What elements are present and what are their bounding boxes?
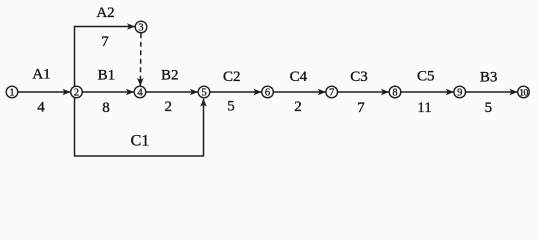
svg-text:C4: C4: [290, 69, 308, 85]
arrow C1 (2 down, across, up to 5): [75, 98, 204, 156]
arrow C4 (6 to 7): [274, 91, 326, 93]
arrow C5 (8 to 9): [401, 91, 454, 93]
svg-text:5: 5: [201, 88, 206, 99]
svg-text:1: 1: [9, 88, 14, 99]
svg-text:10: 10: [519, 89, 528, 99]
svg-text:7: 7: [101, 34, 109, 50]
svg-text:2: 2: [294, 99, 302, 115]
svg-text:2: 2: [165, 99, 173, 115]
arrow C3 (7 to 8): [338, 91, 389, 93]
svg-text:A1: A1: [32, 67, 50, 83]
svg-text:11: 11: [417, 100, 431, 116]
svg-text:5: 5: [227, 99, 235, 115]
arrow C2 (5 to 6): [210, 91, 262, 93]
node 3: [135, 21, 147, 33]
arrow A1 (1 to 2): [18, 91, 71, 93]
svg-text:8: 8: [392, 88, 397, 99]
node 5: [198, 86, 210, 98]
arrow B2 (4 to 5): [146, 91, 198, 93]
svg-text:C5: C5: [417, 69, 435, 85]
node 7: [326, 86, 338, 98]
arrow A2 (2 up and over to 3): [75, 27, 136, 87]
node 8: [389, 86, 401, 98]
svg-text:7: 7: [357, 100, 365, 116]
svg-text:3: 3: [138, 23, 143, 34]
svg-text:C2: C2: [223, 69, 241, 85]
svg-text:9: 9: [457, 88, 462, 99]
node 1: [6, 86, 18, 98]
svg-text:5: 5: [485, 100, 493, 116]
svg-text:6: 6: [265, 88, 270, 99]
node 9: [454, 86, 466, 98]
svg-text:C3: C3: [350, 69, 368, 85]
svg-text:A2: A2: [96, 5, 114, 21]
svg-text:B1: B1: [98, 67, 116, 83]
svg-text:8: 8: [102, 100, 110, 116]
svg-text:B2: B2: [161, 68, 179, 84]
svg-text:4: 4: [137, 88, 143, 99]
node 2: [71, 86, 83, 98]
svg-text:4: 4: [37, 100, 45, 116]
node 4: [134, 86, 146, 98]
arrow B3 (9 to 10): [466, 91, 518, 93]
dummy arrow (3 to 4, dashed): [139, 33, 142, 86]
node 10: [518, 86, 530, 98]
arrow B1 (2 to 4): [83, 91, 135, 93]
svg-text:C1: C1: [131, 132, 150, 149]
svg-text:B3: B3: [480, 70, 498, 86]
svg-text:2: 2: [74, 88, 79, 99]
node 6: [262, 86, 274, 98]
svg-text:7: 7: [329, 88, 334, 99]
